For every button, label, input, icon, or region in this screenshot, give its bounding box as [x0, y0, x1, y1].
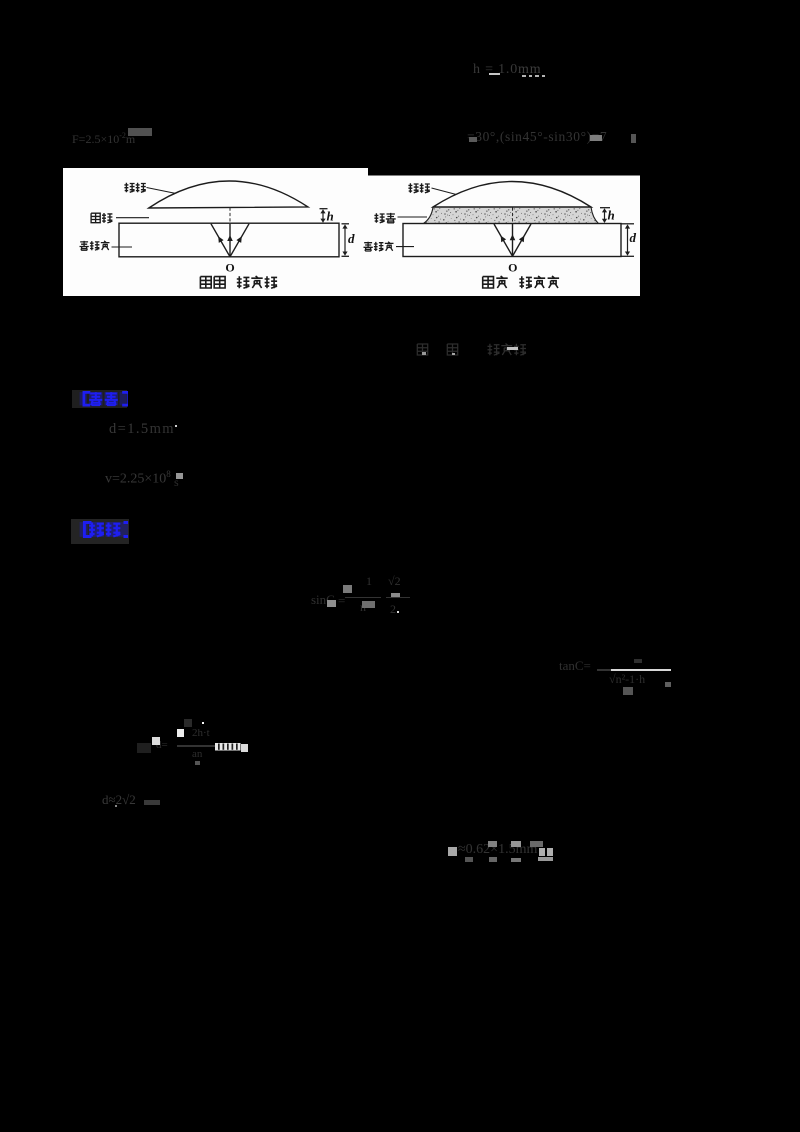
panel 甲 white background	[63, 168, 368, 296]
dark box behind 解析	[71, 519, 129, 544]
light ray right (panel 甲)	[230, 224, 249, 257]
svg-text:O: O	[225, 261, 234, 275]
formula sinC = 1/n = sqrt2/2	[311, 592, 341, 607]
equals light	[391, 593, 400, 597]
pointer line 盖玻片 (panel 乙)	[396, 246, 414, 248]
caption 图甲 填充前	[200, 276, 277, 288]
svg-text:d: d	[630, 230, 637, 245]
white square mark	[177, 729, 185, 737]
pointer line 物镜 (panel 甲)	[147, 188, 182, 195]
white dot	[202, 722, 204, 724]
light marks under mm	[522, 75, 526, 77]
panel 乙 white background	[368, 176, 640, 297]
dimension d (panel 甲)	[342, 224, 350, 256]
white comb (inverted glyph strip)	[215, 743, 241, 751]
blue label 【答案】	[78, 391, 128, 407]
light square mark right of comb	[241, 744, 249, 752]
svg-text:h: h	[327, 209, 334, 224]
dimension h (panel 乙)	[600, 208, 610, 223]
dimension h (panel 甲)	[320, 209, 328, 223]
formula h=1.0mm (top)	[473, 62, 568, 79]
answer line 2 light s	[176, 473, 183, 479]
answer line 1	[109, 421, 194, 438]
fraction bar dark part	[597, 669, 611, 671]
light marks row 840	[448, 847, 458, 856]
light mark approx sign	[469, 137, 478, 143]
light dot 2	[452, 353, 455, 356]
dimension d (panel 乙)	[621, 224, 634, 256]
light ray center (panel 乙)	[510, 224, 516, 256]
answer line 2	[105, 469, 190, 489]
light mark: equals lower bar	[489, 73, 500, 76]
pointer line 油层	[398, 216, 428, 218]
mid formula 由图知 row (dark hanzi blobs)	[414, 342, 534, 358]
light ray left (panel 乙)	[494, 224, 513, 256]
pointer line 间隙	[116, 217, 149, 219]
blue label 【解析】	[78, 521, 128, 539]
light dash in mid formula	[507, 347, 518, 350]
fraction sqrt2/2	[388, 574, 402, 586]
fraction bar light part	[611, 669, 672, 671]
objective lens (panel 乙)	[433, 182, 591, 208]
label 物镜 (panel 乙)	[408, 183, 429, 193]
caption 图乙 填充后	[483, 276, 559, 288]
fraction 1/n	[366, 574, 376, 586]
svg-text:O: O	[508, 261, 517, 275]
pointer line 物镜 (panel 乙)	[432, 188, 463, 196]
label 盖玻片 (panel 甲)	[80, 241, 110, 250]
light ray right (panel 乙)	[513, 224, 532, 256]
formula d=2sqrt2 row	[102, 792, 162, 810]
label 盖玻片 (panel 乙)	[364, 242, 394, 251]
objective lens (panel 甲)	[149, 181, 308, 208]
gray small mark	[195, 761, 200, 766]
light ray center (panel 甲)	[227, 224, 233, 257]
formula tanC = fraction (long bar)	[559, 658, 593, 674]
cover glass (panel 甲)	[119, 223, 339, 257]
formula row 2 right text	[467, 129, 645, 146]
formula row 2 left text	[72, 131, 162, 145]
dark blob marks	[184, 719, 192, 727]
formula d-row dark marks	[156, 739, 172, 752]
optical axis dashed line (panel 甲)	[229, 208, 231, 224]
svg-text:d: d	[348, 231, 355, 246]
illustration: two white figure panels (图甲 / 图乙)	[63, 168, 640, 296]
denominator	[609, 672, 673, 690]
answer line 2 s glyph	[174, 475, 186, 488]
light ray left (panel 甲)	[211, 224, 230, 257]
dark box behind 答案	[72, 390, 127, 408]
pointer line 盖玻片 (panel 甲)	[112, 246, 133, 248]
numerator marks	[634, 659, 642, 663]
label 间隙 (panel 甲)	[91, 213, 112, 223]
svg-text:h: h	[608, 208, 615, 223]
light mark equals	[590, 135, 602, 141]
answer line 1 speckle	[175, 425, 177, 427]
formula approx row dark text	[458, 842, 568, 864]
cover glass (panel 乙)	[403, 224, 621, 257]
light mark digit	[631, 134, 636, 143]
light dot 1	[422, 352, 426, 355]
oil layer (panel 乙)	[424, 207, 599, 224]
optical axis dashed line (panel 乙)	[512, 208, 514, 224]
label 物镜 (panel 甲)	[124, 183, 145, 193]
formula row 2 left: gray highlight patch	[128, 128, 152, 136]
light square mark	[152, 737, 160, 745]
label 油层 (panel 乙)	[374, 213, 395, 223]
